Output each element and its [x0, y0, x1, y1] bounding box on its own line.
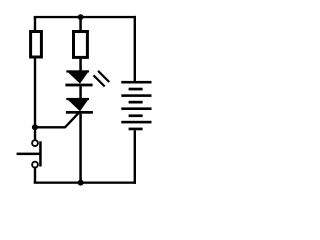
battery B1 long plate 4 [121, 121, 151, 124]
battery B1 short plate 4 [129, 128, 143, 131]
wire R1 to node A [34, 58, 36, 140]
wire gate diagonal [65, 113, 79, 128]
pushbutton S1 bridge bar [39, 141, 42, 166]
wire gate horizontal [35, 126, 66, 128]
resistor R1 [31, 32, 42, 58]
thyristor Q1 anode line [66, 98, 89, 100]
LED D1 triangle [66, 71, 89, 84]
node junction top [78, 14, 84, 20]
wire top dot to R2 [79, 17, 82, 31]
LED D1 light arrow 1 [98, 71, 109, 82]
node A junction [32, 124, 38, 130]
wire R2 to D1 [79, 59, 82, 71]
wire right rail lower [134, 130, 136, 184]
battery B1 long plate 2 [121, 94, 151, 97]
LED D1 anode line [66, 70, 89, 72]
wire D1 to Q1 [79, 86, 82, 98]
wire bottom rail [34, 182, 136, 184]
battery B1 short plate 2 [129, 101, 143, 104]
battery B1 short plate 1 [129, 88, 143, 91]
battery B1 short plate 3 [129, 114, 143, 117]
wire right rail upper [134, 16, 136, 82]
LED D1 cathode bar [65, 84, 92, 87]
resistor R2 [74, 32, 88, 58]
LED D1 light arrow 2 [94, 75, 105, 86]
wire button to bottom rail [34, 168, 36, 183]
battery B1 long plate 1 [121, 81, 151, 84]
pushbutton S1 bottom contact [32, 162, 38, 168]
wire Q1 to bottom node [79, 114, 82, 183]
wire top rail [34, 16, 136, 18]
wire left drop to R1 [34, 16, 36, 31]
pushbutton S1 top contact [32, 140, 38, 146]
pushbutton S1 actuator stem [17, 153, 40, 156]
thyristor Q1 triangle [66, 98, 89, 111]
thyristor Q1 cathode bar [66, 111, 93, 114]
battery B1 long plate 3 [121, 107, 151, 110]
node junction bottom [78, 180, 84, 186]
